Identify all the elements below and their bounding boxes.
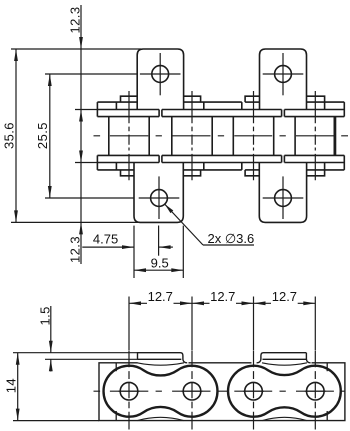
pin centerline P4 (side) <box>314 350 316 429</box>
dimension line 12.7 (x3) <box>129 302 147 304</box>
label 12.7 (second) <box>210 289 235 304</box>
label 12.7 (third) <box>272 289 297 304</box>
extension line plate bottom (y=162.5) <box>75 162 97 164</box>
label 12.3 (bottom) <box>67 236 82 263</box>
arrowheads 12.3 top <box>79 37 83 49</box>
label 9.5 <box>151 255 169 270</box>
svg-text:2x ∅3.6: 2x ∅3.6 <box>208 231 255 246</box>
pin end caps lower (mirror) <box>121 170 325 176</box>
pin centerline P4 <box>314 91 316 180</box>
attachment lug K1 top-right (bent up) <box>260 49 307 110</box>
leader arrowhead <box>165 204 174 213</box>
leader line 2x Ø3.6 <box>165 204 203 245</box>
crosshair of bottom-left lug hole <box>139 197 180 199</box>
dimension line 35.6 <box>15 49 17 222</box>
pin centerline P3 <box>253 91 255 180</box>
dimension line 1.5 <box>50 306 52 353</box>
outer plate strips upper (y 102.1..109.5) <box>97 102 344 117</box>
hole of bottom-right lug <box>275 190 292 207</box>
extension line hole bottom center (y=198) <box>45 197 134 199</box>
chain body rectangle (inner plates, side view) <box>99 363 345 421</box>
rollers (plan view) <box>109 117 336 156</box>
extension line lug top (y=49) <box>11 48 141 50</box>
svg-text:12.3: 12.3 <box>67 7 82 34</box>
extension line plate top (y=109.5) <box>75 109 97 111</box>
crosshair of top-left lug hole <box>140 73 181 75</box>
svg-text:12.3: 12.3 <box>67 236 82 263</box>
dimension line 25.5 <box>49 74 51 198</box>
chain cut line right end <box>333 117 335 156</box>
outer link plate figure-8 (right, thick outline) <box>228 366 341 417</box>
arrowheads 1.5 <box>49 341 53 353</box>
pin 4 (side view) <box>307 382 325 400</box>
extension line tab top (y=352.7) <box>13 352 138 354</box>
attachment lug K1 top-left (bent up) <box>137 49 183 110</box>
pin centerline P1 <box>128 91 130 180</box>
svg-text:14: 14 <box>3 378 18 393</box>
label 25.5 <box>35 122 50 149</box>
inner plate band upper (top edge y=109.5, bottom y=116.6, gaps at lug centers) <box>97 110 344 117</box>
arrowheads 25.5 <box>48 74 52 86</box>
dimension line 12.3 (top and bottom combined) <box>80 5 82 264</box>
svg-text:4.75: 4.75 <box>93 231 118 246</box>
pin centerline P2 <box>191 91 193 180</box>
svg-text:12.7: 12.7 <box>272 289 297 304</box>
hole of top-right lug <box>275 66 292 83</box>
attachment lug K1 bottom-left (bent down) <box>134 163 183 223</box>
outer link plate figure-8 (left, thick outline) <box>104 366 218 417</box>
inner plate edge left end <box>115 363 117 371</box>
svg-text:12.7: 12.7 <box>210 289 235 304</box>
pin centerline P1 (side) <box>128 350 130 429</box>
svg-text:25.5: 25.5 <box>35 122 50 149</box>
label 2x Ø3.6 <box>208 231 255 246</box>
arrowheads 12.7 <box>129 301 141 305</box>
dimension line 4.75 <box>82 246 134 248</box>
svg-text:35.6: 35.6 <box>1 122 16 149</box>
bent tab of attachment (right link) <box>257 353 311 363</box>
label 4.75 <box>93 231 118 246</box>
arrowheads 14 <box>16 353 20 365</box>
label 12.3 (top) <box>67 7 82 34</box>
arrowheads 12.3 bottom <box>79 151 83 163</box>
crosshair of bottom-right lug hole <box>263 197 304 199</box>
extension line bottom lug tip (y=222.4) <box>11 221 140 223</box>
dimension line 9.5 <box>134 269 183 271</box>
pin centerline P2 (side) <box>191 350 193 429</box>
label 14 <box>3 378 18 393</box>
chain centerline (top view) <box>94 135 349 137</box>
pin 1 (side view) <box>120 382 138 400</box>
pin centerline P3 (side) <box>253 350 255 429</box>
extension line hole1 center (y=74) <box>45 73 137 75</box>
extension line bottom lug right edge (x=183.3) <box>182 226 184 278</box>
hole of top-left lug <box>152 66 169 83</box>
chain centerline (side view) <box>94 390 346 392</box>
svg-text:12.7: 12.7 <box>148 289 173 304</box>
pin 3 (side view) <box>245 382 263 400</box>
label 1.5 <box>37 306 52 325</box>
pin 2 (side view) <box>183 382 201 400</box>
attachment lug K1 bottom-right (bent down) <box>259 163 306 223</box>
arrowheads 4.75 <box>122 245 134 249</box>
arrowheads 35.6 <box>14 49 18 61</box>
extension line bottom lug left edge (x=134) <box>133 226 135 278</box>
pin end caps upper <box>121 96 325 102</box>
hole of bottom-left lug <box>151 190 168 207</box>
outer plate strips lower (mirror) <box>97 155 344 170</box>
crosshair of top-right lug hole <box>263 73 304 75</box>
extension line tab bottom (y=360.6) <box>45 358 138 360</box>
inner plate band lower (mirror) <box>97 155 344 162</box>
extension line chain bottom (y=419.6) <box>13 420 99 422</box>
bent tab of attachment (left link) <box>138 353 188 363</box>
svg-text:9.5: 9.5 <box>151 255 169 270</box>
label 12.7 (first) <box>148 289 173 304</box>
extension lines pins for 12.7 <box>128 297 130 351</box>
svg-text:1.5: 1.5 <box>37 306 52 325</box>
dimension line 14 <box>17 353 19 421</box>
label 35.6 <box>1 122 16 149</box>
roller edges visible through waist (right link) <box>262 363 307 365</box>
inner plate edge right end <box>326 363 328 371</box>
extension line bottom hole center (x=158.6) <box>158 226 160 256</box>
arrowheads 9.5 <box>134 268 146 272</box>
roller edges visible through waist (left link) <box>137 363 184 365</box>
